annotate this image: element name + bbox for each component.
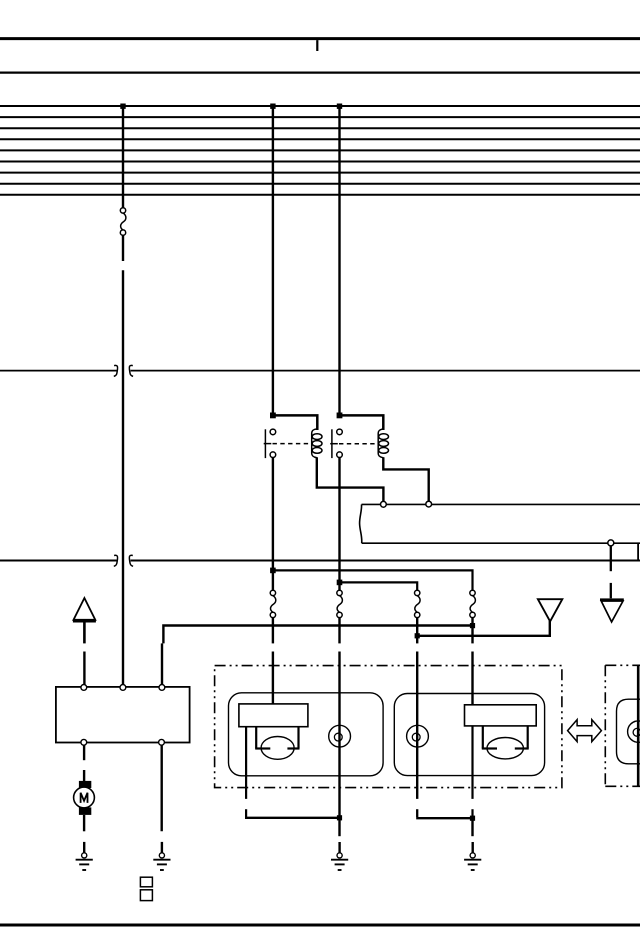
headlamp left H4 connector [239, 704, 308, 727]
bus line 6 [0, 161, 640, 163]
connector C2 [337, 590, 343, 617]
relay R2 contact terminal upper [337, 429, 343, 435]
wire relay1 output drop [272, 457, 274, 570]
relay R2 armature tick [330, 443, 338, 445]
relay R1 armature tick [264, 443, 272, 445]
wire W3 drop to relay 2 [338, 106, 340, 415]
relay R2 coil [378, 429, 388, 458]
arrow to page right (down) [600, 598, 624, 622]
boundary line upper right segment [131, 370, 640, 372]
wire lamp2 to ground G4 [471, 818, 473, 836]
node lamp2 ground junction [470, 816, 475, 821]
fuse F1 [120, 208, 126, 236]
relay R1 contact terminal upper [270, 429, 276, 435]
motor M1 [74, 781, 95, 815]
relay R1 contact terminal lower [270, 452, 276, 458]
frame tick mark [316, 40, 318, 51]
bus line 5 [0, 149, 640, 151]
frame second border line [0, 71, 640, 73]
wire W1 upper [122, 106, 124, 208]
wire W3 to lamp1 bulb [338, 618, 340, 644]
wire lamp1 bulb leg left [255, 727, 270, 749]
boundary lower break hooks [114, 555, 133, 566]
boundary line lower left segment [0, 560, 117, 562]
wire relay1 coil lead top [273, 415, 317, 430]
ground G4 [464, 853, 481, 870]
wire W4 to lamp2 bulb [416, 618, 418, 644]
wire tie line B [417, 621, 550, 636]
bulb lamp2 clearance [407, 725, 429, 747]
relay R1 contact blade [264, 429, 266, 458]
headlamp left housing [229, 693, 384, 776]
node tie A junction [470, 623, 475, 628]
wire lamp1 bulb leg right [287, 727, 299, 749]
frame bottom border line [0, 924, 640, 927]
wire W8 to box [83, 652, 85, 688]
wire relay2 output below junction [338, 582, 340, 590]
wire lamp1 to ground G3 [338, 818, 340, 836]
pin box top 2 [120, 685, 126, 691]
node relay1 junction [270, 413, 276, 419]
arrow from page (up) [73, 598, 96, 643]
harness box right (dash-dot) [605, 665, 640, 786]
arrow to page left (down) [538, 599, 562, 621]
bus line 4 [0, 138, 640, 140]
bulb lamp1 clearance [329, 725, 351, 747]
pin box bottom 1 [81, 739, 87, 745]
relay R2 armature dashed link [339, 443, 378, 445]
bus line 3 [0, 127, 640, 129]
pin box bottom 2 [159, 739, 165, 745]
bulb far-right clearance (partial) [628, 721, 640, 742]
node branch junction W2 [270, 568, 276, 574]
node rail terminal B [426, 501, 432, 507]
node rail lower terminal [608, 540, 614, 546]
wire lamp1 through leg [245, 727, 247, 818]
boundary line lower right segment [131, 560, 640, 562]
relay R1 armature dashed link [273, 443, 312, 445]
frame top border line [0, 37, 640, 40]
ground G2 [153, 853, 170, 870]
relay R2 contact blade [331, 429, 333, 458]
bus line 7 [0, 172, 640, 174]
wire motor feed [83, 745, 85, 781]
boundary upper break hooks [114, 365, 133, 376]
wire lamp2 bulb leg right [515, 726, 529, 749]
node lamp1 ground junction [337, 815, 342, 820]
wire lamp1 bottom tie [245, 809, 417, 818]
wire relay2 coil lead top [340, 415, 384, 430]
wire relay2 coil lead bottom [383, 457, 428, 501]
ground G3 [331, 853, 348, 870]
node relay2 junction [337, 413, 343, 419]
headlamp far-right housing (partial) [617, 699, 640, 764]
control box U1 [56, 687, 190, 743]
wire branch to connector E [273, 570, 473, 590]
bulb lamp1 high/low [261, 737, 294, 760]
wire relay2 output drop [338, 457, 340, 582]
wire W5 to lamp2 H4 [471, 618, 473, 644]
wire rail wiggle drop [360, 504, 362, 543]
wire lamp2 bulb leg left [482, 726, 497, 749]
wire relay1 output below junction [272, 570, 274, 590]
wire W1 below fuse [122, 235, 124, 261]
relay R2 contact terminal lower [337, 452, 343, 458]
node tie B junction [415, 633, 420, 638]
wire far-right lamp feed [637, 666, 640, 786]
node branch junction W3 [337, 580, 343, 586]
wire lamp2 bottom tie [416, 817, 472, 819]
connector key squares [140, 877, 152, 900]
wire rail upper [362, 503, 640, 505]
ground G1 [76, 853, 93, 870]
connector C1 [270, 590, 276, 617]
bus line 9 [0, 194, 640, 196]
wire right edge link [637, 544, 639, 560]
bus line 8 [0, 183, 640, 185]
headlamp right housing [394, 694, 544, 776]
bus line 1 [0, 105, 640, 107]
node bus junction W1 [120, 104, 125, 109]
connector C4 [470, 590, 476, 617]
wire W1 long run to box [122, 270, 124, 687]
node bus junction W3 [337, 104, 342, 109]
bulb lamp2 high/low [487, 738, 523, 759]
relay R1 coil [312, 429, 322, 458]
pin box top 3 [159, 685, 165, 691]
wire branch to connector D [340, 582, 418, 590]
wire relay1 coil lead bottom [317, 457, 384, 501]
wire tie line A [163, 626, 472, 644]
node rail terminal A [381, 501, 387, 507]
wire W6 dashed drop [610, 546, 612, 598]
node bus junction W2 [270, 104, 275, 109]
bus line 2 [0, 116, 640, 118]
pin box top 1 [81, 685, 87, 691]
wire rail lower [362, 542, 640, 544]
connector C3 [415, 590, 421, 617]
wire W2 drop to relay 1 [272, 106, 274, 415]
harness box left (dash-dot) [215, 666, 562, 788]
headlamp right H4 connector [465, 705, 537, 726]
wire lamp2 through leg [471, 726, 473, 818]
boundary line upper left segment [0, 370, 117, 372]
wire box pin to ground G2 [160, 745, 162, 831]
arrow double-headed [568, 720, 602, 742]
wire W2 to lamp1 H4 [272, 618, 274, 644]
wire W9 corner to box [161, 643, 163, 651]
wire motor to ground [83, 815, 85, 831]
